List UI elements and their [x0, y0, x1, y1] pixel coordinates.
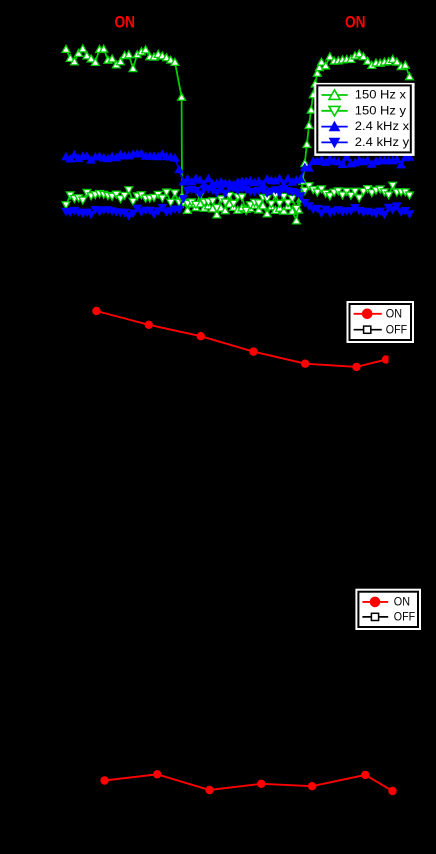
- legend bottom panel: [355, 589, 421, 630]
- svg-text:ON: ON: [394, 597, 410, 609]
- series middle panel ON (red circles): [96, 311, 386, 367]
- svg-text:2.4 kHz y: 2.4 kHz y: [355, 137, 410, 149]
- series bottom panel ON (red circles): [105, 774, 393, 791]
- svg-text:ON: ON: [345, 12, 366, 31]
- trace 150 Hz y (green open down-triangles): [66, 186, 410, 211]
- trace 2.4 kHz x (blue filled up-triangles): [66, 154, 410, 186]
- svg-text:150 Hz y: 150 Hz y: [355, 105, 406, 117]
- trace 2.4 kHz y (blue filled down-triangles): [66, 188, 410, 216]
- svg-text:ON: ON: [115, 12, 136, 31]
- legend top panel: [314, 83, 414, 156]
- svg-text:OFF: OFF: [394, 612, 415, 624]
- svg-text:2.4 kHz x: 2.4 kHz x: [355, 121, 410, 133]
- trace 150 Hz x (green open up-triangles): [66, 49, 410, 221]
- legend middle panel: [347, 301, 415, 343]
- svg-text:150 Hz x: 150 Hz x: [355, 90, 406, 102]
- svg-text:ON: ON: [386, 308, 402, 320]
- svg-text:OFF: OFF: [386, 324, 407, 336]
